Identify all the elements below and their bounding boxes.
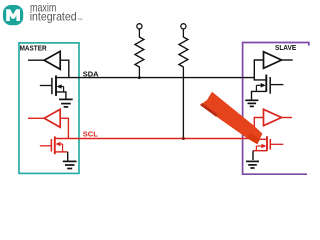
wire master SCL buffer output stub: [28, 117, 44, 119]
annotation arrow body: [200, 92, 262, 144]
wire slave SDA buffer input from bus: [254, 60, 263, 78]
wire Q2 source drop to ground: [67, 152, 69, 161]
wire master SCL buffer input from bus: [60, 118, 68, 138]
svg-text:SCL: SCL: [83, 129, 98, 138]
transistor Q1 master SDA open-drain gate lead: [40, 85, 52, 87]
wire Q2 source to ground: [55, 151, 68, 153]
wire Q1 body to source: [63, 87, 65, 92]
transistor Q3 gate lead stub: [270, 84, 283, 86]
annotation arrow head facet: [247, 133, 260, 144]
svg-text:MASTER: MASTER: [20, 44, 48, 53]
transistor Q2 gate bar: [50, 139, 52, 152]
transistor Q3 gate bar: [269, 77, 271, 94]
transistor Q1 gate bar: [51, 78, 53, 94]
transistor Q4 body arrow: [256, 144, 266, 149]
SLAVE block box: [243, 43, 309, 175]
transistor Q2 master SCL open-drain gate lead: [40, 145, 52, 147]
svg-text:SLAVE: SLAVE: [275, 43, 296, 52]
transistor Q3 channel bar: [265, 75, 267, 92]
svg-text:SDA: SDA: [83, 69, 99, 78]
transistor Q1 body arrow: [57, 84, 64, 89]
wire Q4 source to ground: [253, 150, 267, 152]
svg-text:integrated: integrated: [30, 10, 77, 24]
annotation arrow tail fold: [200, 103, 218, 117]
transistor Q1 channel bar: [55, 76, 57, 96]
ground master SCL: [63, 161, 77, 168]
wire master SDA buffer input from bus: [60, 60, 69, 77]
pull-up resistor R1: [135, 29, 144, 78]
svg-text:TM: TM: [77, 18, 82, 22]
net SCL wire: [55, 138, 255, 140]
op-amp buffer U4 slave SCL receiver: [264, 109, 282, 125]
wire Q3 body to source: [255, 85, 257, 91]
wire slave SCL bus to Q4 drain: [254, 138, 267, 141]
wire master SDA buffer output stub: [28, 59, 44, 61]
op-amp buffer U3 slave SDA receiver: [264, 52, 282, 69]
wire Q4 source drop to ground: [252, 151, 254, 160]
pull-up resistor R2: [179, 29, 188, 139]
transistor Q4 gate bar: [269, 139, 271, 150]
ground master SDA: [59, 99, 73, 107]
wire slave SCL buffer input from bus: [254, 118, 263, 139]
VCC terminal of resistor R2: [181, 24, 186, 29]
transistor Q2 channel bar: [54, 136, 56, 154]
transistor Q2 body arrow: [55, 142, 62, 147]
op-amp buffer U2 master SCL receiver: [44, 109, 60, 127]
wire Q3 source to ground: [252, 91, 267, 99]
op-amp buffer U1 master SDA receiver: [44, 51, 60, 69]
wire slave SCL buffer output stub: [282, 117, 293, 119]
ground slave SCL: [246, 161, 259, 168]
junction R1 to SDA: [138, 76, 141, 79]
transistor Q4 channel bar: [266, 136, 268, 151]
wire Q4 body to source: [255, 146, 257, 151]
wire slave SDA bus to Q3 drain: [254, 78, 266, 80]
maxim logo mark: [3, 5, 23, 25]
junction R2 to SCL: [182, 137, 185, 140]
wire Q2 body to source: [62, 144, 64, 152]
MASTER block box: [19, 43, 79, 174]
transistor Q3 body arrow: [256, 83, 265, 88]
transistor Q4 gate lead stub: [270, 143, 283, 145]
ground slave SDA: [245, 100, 258, 106]
net SDA wire: [56, 77, 255, 79]
VCC terminal of resistor R1: [137, 24, 142, 29]
wire Q1 source to ground: [56, 92, 66, 100]
wire slave SDA buffer output stub: [282, 59, 293, 61]
